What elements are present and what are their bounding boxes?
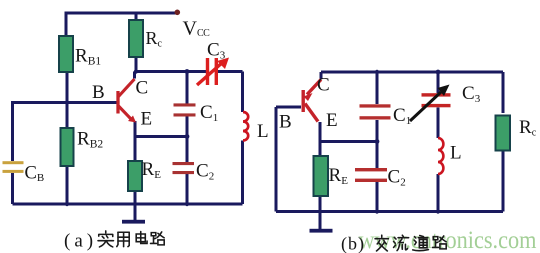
svg-text:RE: RE	[329, 165, 349, 187]
svg-text:(a): (a)	[64, 231, 97, 252]
svg-text:RB2: RB2	[77, 129, 103, 151]
svg-text:C1: C1	[393, 105, 411, 127]
svg-text:C3: C3	[462, 83, 481, 105]
svg-text:C: C	[317, 75, 330, 96]
svg-text:L: L	[257, 121, 269, 142]
svg-text:C2: C2	[196, 161, 214, 183]
svg-text:B: B	[92, 82, 105, 103]
svg-text:Rc: Rc	[146, 28, 163, 50]
svg-text:C3: C3	[207, 40, 226, 62]
svg-text:C: C	[136, 78, 149, 99]
svg-text:(b): (b)	[341, 234, 365, 253]
svg-text:B: B	[279, 112, 292, 133]
svg-text:Rc: Rc	[519, 117, 537, 139]
svg-text:RE: RE	[142, 159, 162, 181]
svg-text:L: L	[450, 143, 462, 164]
svg-text:C2: C2	[388, 167, 406, 189]
svg-text:E: E	[326, 110, 338, 131]
svg-text:CB: CB	[25, 164, 45, 185]
svg-text:C1: C1	[200, 102, 218, 124]
svg-text:VCC: VCC	[183, 18, 211, 40]
svg-text:E: E	[141, 109, 153, 130]
svg-text:RB1: RB1	[75, 46, 101, 68]
